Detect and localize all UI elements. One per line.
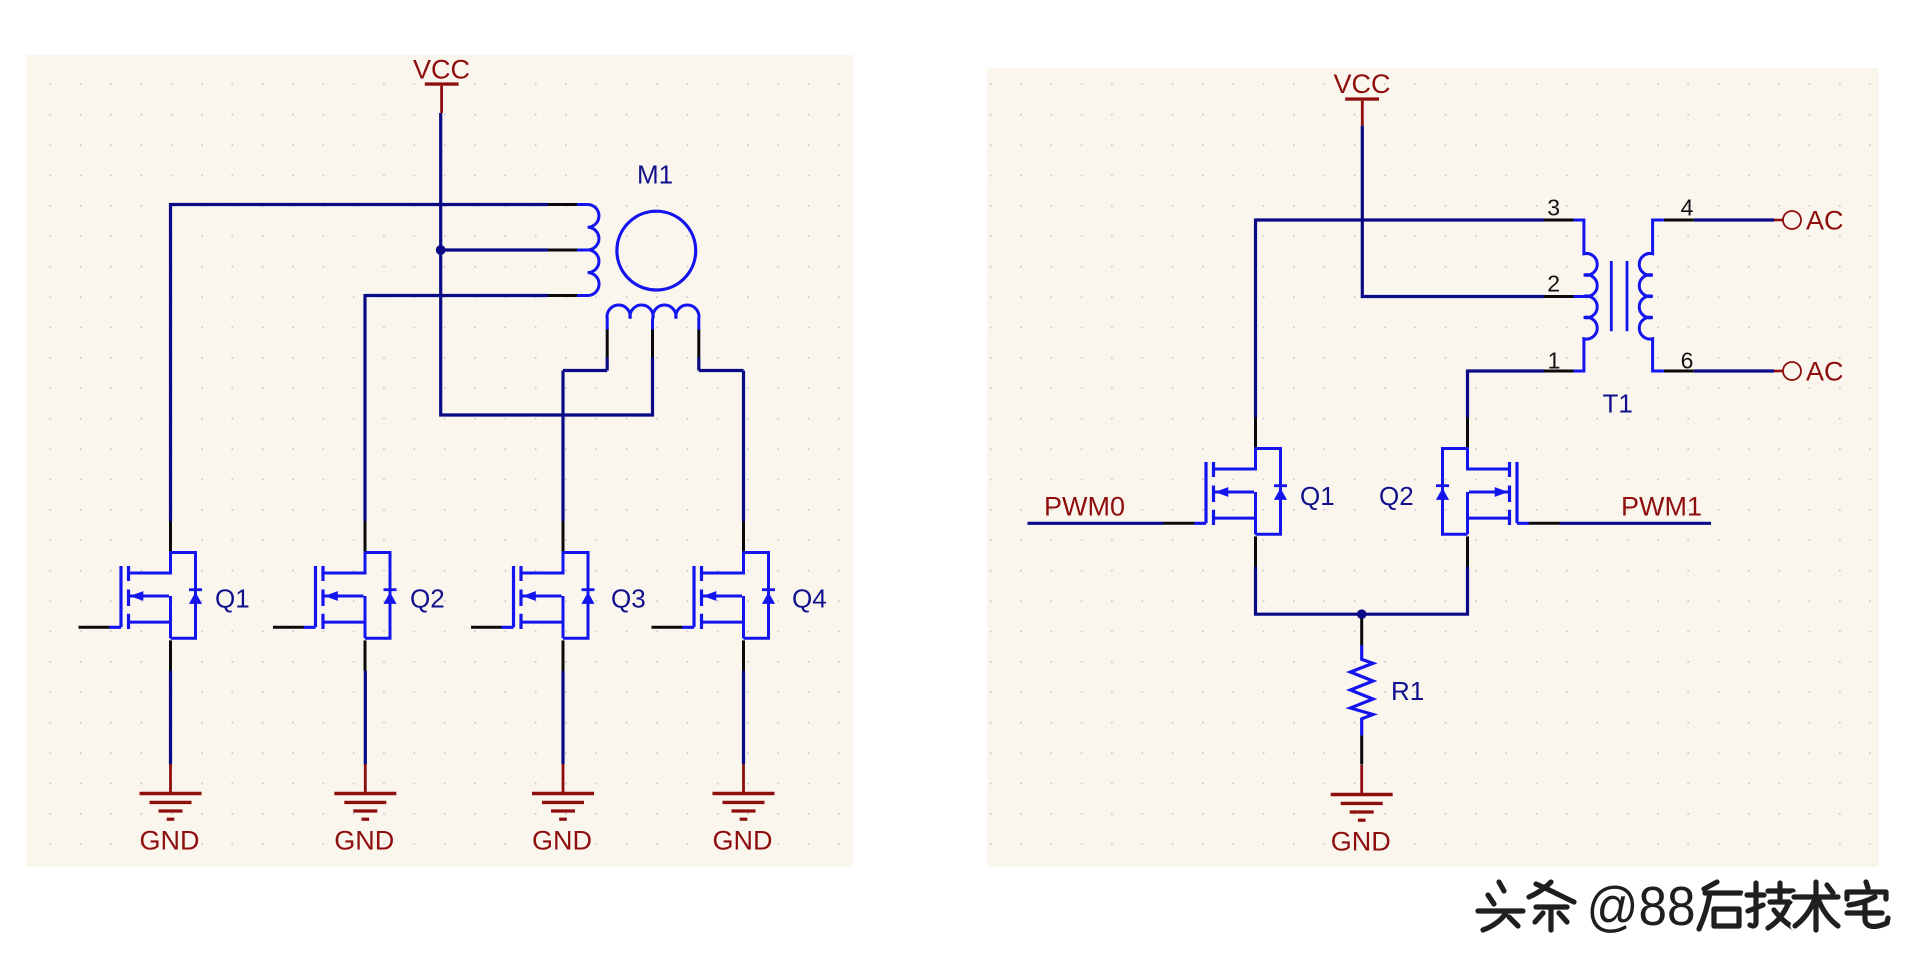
svg-text:VCC: VCC	[1334, 69, 1391, 99]
svg-text:R1: R1	[1391, 676, 1424, 706]
svg-text:VCC: VCC	[413, 55, 470, 85]
svg-text:PWM0: PWM0	[1044, 492, 1125, 522]
svg-text:Q4: Q4	[792, 584, 827, 614]
svg-text:AC: AC	[1806, 206, 1844, 236]
svg-text:Q1: Q1	[215, 584, 250, 614]
svg-text:2: 2	[1547, 271, 1560, 297]
svg-text:@88: @88	[1587, 875, 1696, 937]
svg-text:1: 1	[1548, 348, 1561, 374]
svg-text:PWM1: PWM1	[1621, 492, 1702, 522]
svg-text:3: 3	[1547, 195, 1560, 221]
svg-text:AC: AC	[1806, 357, 1844, 387]
svg-text:M1: M1	[637, 160, 673, 190]
svg-text:Q2: Q2	[1379, 481, 1414, 511]
svg-text:4: 4	[1681, 195, 1694, 221]
svg-text:Q3: Q3	[611, 584, 646, 614]
svg-text:6: 6	[1681, 348, 1694, 374]
svg-text:Q2: Q2	[410, 584, 445, 614]
svg-text:Q1: Q1	[1300, 481, 1335, 511]
svg-text:T1: T1	[1603, 389, 1633, 419]
